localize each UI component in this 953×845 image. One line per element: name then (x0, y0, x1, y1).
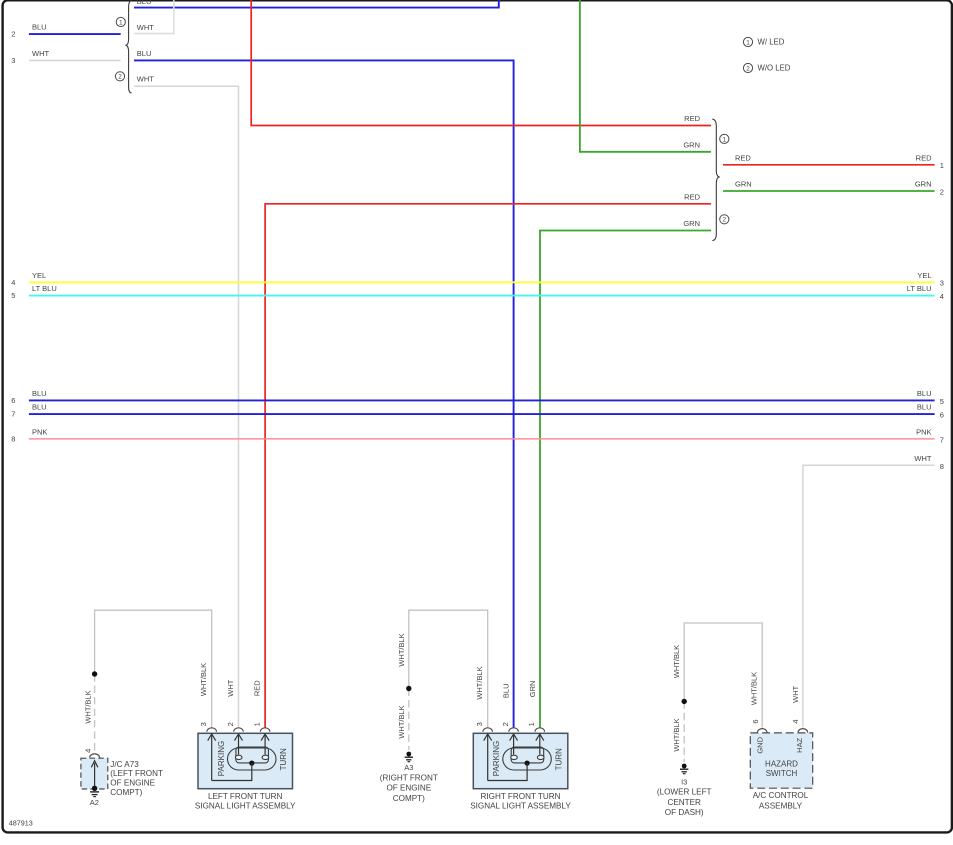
label J/C A73 (110, 760, 163, 797)
svg-text:J/C A73: J/C A73 (110, 760, 139, 769)
svg-text:A2: A2 (90, 798, 99, 807)
svg-text:BLU: BLU (917, 403, 932, 412)
svg-text:WHT/BLK: WHT/BLK (397, 705, 406, 738)
wire WHT/BLK left run to J/C A73 and left assembly pin 3 (95, 610, 212, 727)
svg-text:OF ENGINE: OF ENGINE (110, 779, 155, 788)
right front turn signal light assembly box (473, 722, 568, 788)
svg-text:WHT: WHT (791, 685, 800, 702)
svg-text:WHT/BLK: WHT/BLK (750, 672, 759, 705)
wire WHT/BLK dashed segment to J/C A73 (94, 674, 96, 753)
svg-text:1: 1 (119, 19, 123, 26)
svg-text:YEL: YEL (32, 271, 46, 280)
svg-text:1: 1 (723, 136, 727, 143)
wire WHT/BLK right run to I3 and hazard switch pin 6 (684, 623, 762, 728)
svg-text:487913: 487913 (9, 819, 33, 828)
svg-text:CENTER: CENTER (667, 798, 701, 807)
svg-text:W/ LED: W/ LED (758, 38, 785, 47)
svg-text:WHT: WHT (226, 679, 235, 696)
svg-text:BLU: BLU (32, 389, 47, 398)
svg-text:RED: RED (916, 153, 932, 162)
svg-text:GND: GND (755, 736, 764, 753)
wire GRN option2 down to right front turn signal pin 1 (540, 231, 711, 728)
svg-text:2: 2 (501, 722, 510, 726)
wire WHT from left pin 3 (29, 60, 121, 62)
brace left group (125, 1, 131, 94)
wire BLU left pin 7 to right pin 6 (29, 413, 935, 415)
svg-text:2: 2 (11, 30, 15, 39)
junction connector J/C A73 (81, 749, 108, 791)
svg-text:WHT/BLK: WHT/BLK (672, 718, 681, 751)
svg-text:A3: A3 (404, 763, 413, 772)
svg-text:6: 6 (11, 396, 15, 405)
left front turn signal light assembly box (198, 722, 293, 788)
svg-text:4: 4 (791, 719, 800, 723)
label I3 location (657, 788, 712, 817)
wire RED to right pin 1 (723, 164, 935, 166)
wire WHT option1 to top edge (134, 0, 174, 34)
svg-text:3: 3 (940, 279, 944, 288)
svg-text:WHT: WHT (914, 454, 931, 463)
ground A3 (404, 752, 413, 772)
svg-text:GRN: GRN (683, 140, 700, 149)
svg-text:4: 4 (11, 278, 15, 287)
svg-text:GRN: GRN (528, 681, 537, 698)
wire WHT/BLK dashed segment to ground I3 (683, 701, 685, 762)
svg-text:2: 2 (118, 74, 122, 81)
svg-text:5: 5 (940, 397, 944, 406)
svg-text:W/O LED: W/O LED (758, 64, 791, 73)
svg-text:RED: RED (735, 153, 751, 162)
note circle 2 at right brace (720, 215, 729, 224)
svg-text:6: 6 (751, 719, 760, 723)
svg-text:RED: RED (684, 114, 700, 123)
svg-text:GRN: GRN (735, 180, 752, 189)
svg-text:BLU: BLU (137, 49, 152, 58)
svg-text:HAZARD: HAZARD (765, 759, 798, 768)
wire YEL left pin 4 to right pin 3 (29, 281, 935, 283)
svg-text:LT BLU: LT BLU (32, 284, 57, 293)
svg-text:PNK: PNK (32, 428, 47, 437)
svg-text:(LEFT FRONT: (LEFT FRONT (110, 769, 163, 778)
svg-text:8: 8 (940, 462, 944, 471)
svg-text:PNK: PNK (916, 428, 931, 437)
svg-text:(LOWER LEFT: (LOWER LEFT (657, 788, 712, 797)
svg-text:3: 3 (11, 56, 15, 65)
svg-text:WHT: WHT (32, 49, 49, 58)
svg-text:WHT/BLK: WHT/BLK (199, 663, 208, 696)
svg-text:(RIGHT FRONT: (RIGHT FRONT (380, 773, 438, 782)
wire BLU option1 to top edge (134, 0, 499, 8)
wire WHT option2 down to left front turn signal pin 2 (134, 86, 239, 727)
svg-text:BLU: BLU (502, 684, 511, 699)
svg-text:BLU: BLU (137, 0, 152, 6)
svg-text:WHT/BLK: WHT/BLK (397, 633, 406, 666)
svg-text:2: 2 (940, 187, 944, 196)
wire RED option1 from top edge (251, 0, 711, 126)
svg-text:WHT/BLK: WHT/BLK (475, 666, 484, 699)
svg-text:PARKING: PARKING (217, 741, 226, 776)
hazard switch in A/C control assembly (750, 719, 812, 788)
svg-text:SIGNAL LIGHT ASSEMBLY: SIGNAL LIGHT ASSEMBLY (195, 802, 296, 811)
legend note 1 W/ LED (743, 37, 784, 46)
note circle 1 at left brace (116, 17, 125, 26)
svg-text:2: 2 (226, 722, 235, 726)
svg-text:WHT: WHT (137, 75, 154, 84)
svg-text:LT BLU: LT BLU (907, 284, 932, 293)
svg-text:2: 2 (723, 217, 727, 224)
svg-text:TURN: TURN (554, 748, 563, 770)
note circle 2 at left brace (115, 72, 124, 81)
svg-text:8: 8 (11, 434, 15, 443)
junction dot left WHT/BLK (92, 671, 97, 676)
brace right group (712, 119, 720, 241)
svg-text:3: 3 (475, 722, 484, 726)
ground A2 (90, 792, 99, 807)
svg-text:OF DASH): OF DASH) (665, 808, 704, 817)
wire PNK left pin 8 to right pin 7 (29, 438, 935, 440)
svg-text:COMPT): COMPT) (393, 794, 425, 803)
svg-text:WHT: WHT (137, 23, 154, 32)
svg-text:TURN: TURN (279, 748, 288, 770)
svg-text:I3: I3 (681, 777, 687, 786)
ground I3 (680, 764, 688, 787)
note circle 1 at right brace (720, 134, 729, 143)
svg-text:WHT/BLK: WHT/BLK (84, 690, 93, 723)
wire BLU option2 down to right front turn signal pin 2 (134, 60, 514, 727)
svg-text:4: 4 (940, 292, 944, 301)
svg-text:RIGHT FRONT TURN: RIGHT FRONT TURN (481, 792, 561, 801)
svg-text:GRN: GRN (915, 180, 932, 189)
label A3 location (380, 773, 438, 802)
svg-text:LEFT FRONT TURN: LEFT FRONT TURN (208, 792, 283, 801)
svg-text:RED: RED (253, 680, 262, 696)
svg-text:OF ENGINE: OF ENGINE (386, 784, 431, 793)
svg-text:1: 1 (252, 722, 261, 726)
wire GRN to right pin 2 (723, 190, 935, 192)
wire WHT right pin 8 down to hazard switch pin 4 (803, 465, 935, 727)
svg-text:2: 2 (746, 65, 750, 72)
svg-text:1: 1 (527, 722, 536, 726)
svg-text:YEL: YEL (917, 271, 931, 280)
svg-text:HAZ: HAZ (795, 737, 804, 752)
legend note 2 W/O LED (743, 63, 790, 72)
svg-text:5: 5 (11, 291, 15, 300)
svg-text:PARKING: PARKING (492, 741, 501, 776)
wire BLU from left pin 2 (29, 33, 121, 35)
svg-text:3: 3 (199, 722, 208, 726)
svg-text:BLU: BLU (32, 23, 47, 32)
svg-text:4: 4 (84, 749, 93, 753)
svg-text:ASSEMBLY: ASSEMBLY (759, 801, 803, 810)
svg-text:7: 7 (940, 435, 944, 444)
svg-text:1: 1 (940, 161, 944, 170)
svg-text:RED: RED (684, 192, 700, 201)
junction dot middle WHT/BLK (406, 686, 411, 691)
svg-text:SIGNAL LIGHT ASSEMBLY: SIGNAL LIGHT ASSEMBLY (470, 802, 571, 811)
svg-text:6: 6 (940, 411, 944, 420)
svg-text:BLU: BLU (32, 403, 47, 412)
wire WHT/BLK middle run to A3 and right assembly pin 3 (409, 610, 488, 727)
svg-text:WHT/BLK: WHT/BLK (672, 645, 681, 678)
wire LT BLU left pin 5 to right pin 4 (29, 295, 935, 297)
svg-text:1: 1 (746, 39, 750, 46)
svg-text:GRN: GRN (683, 219, 700, 228)
svg-text:COMPT): COMPT) (110, 788, 142, 797)
svg-text:7: 7 (11, 410, 15, 419)
wire WHT/BLK dashed segment to ground A3 (408, 689, 410, 751)
wire GRN option1 from top edge (580, 0, 711, 152)
svg-text:SWITCH: SWITCH (766, 769, 798, 778)
junction dot right WHT/BLK (682, 699, 687, 704)
wire BLU left pin 6 to right pin 5 (29, 399, 935, 401)
svg-text:BLU: BLU (917, 389, 932, 398)
svg-text:A/C CONTROL: A/C CONTROL (753, 791, 809, 800)
wire RED option2 down to left front turn signal pin 1 (265, 204, 711, 728)
